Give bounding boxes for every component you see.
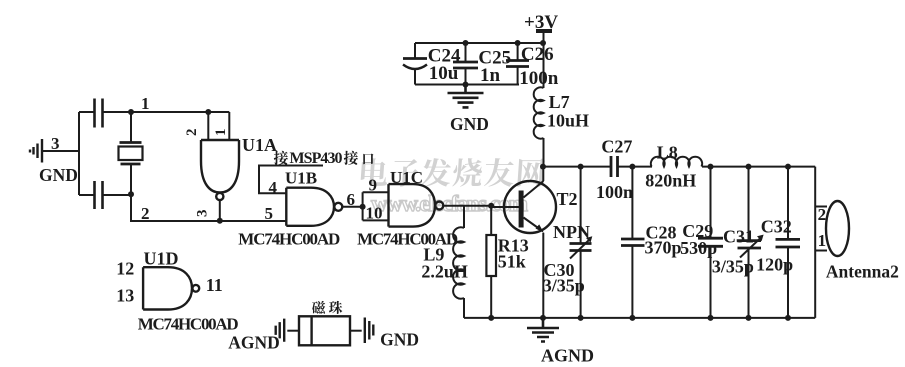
bottom ground rail [464,317,815,319]
wire bead to GND [350,330,362,332]
top rail right of L8 [702,166,815,168]
wire base node to T2 [491,206,519,208]
wire vertical left bus [78,112,80,195]
svg-text:2: 2 [184,129,200,137]
svg-text:11: 11 [206,275,223,295]
resistor R13 [486,206,496,318]
svg-text:51k: 51k [498,252,526,272]
svg-text:3: 3 [51,134,60,153]
svg-text:10uH: 10uH [547,111,589,131]
label 接MSP430接口 [274,150,374,167]
wire AGND to bead [287,330,299,332]
nand gate U1B [286,188,342,226]
nand gate U1A (vertical) [201,140,239,200]
svg-text:MC74HC00AD: MC74HC00AD [238,230,340,249]
ferrite bead body [299,316,350,345]
svg-text:100n: 100n [596,182,633,202]
wire node1 to U1A inputs [131,111,229,113]
svg-text:C32: C32 [761,217,792,237]
junction dot at U1A input [205,109,211,115]
svg-text:U1B: U1B [285,169,317,188]
ground symbol GND (left, pin 3) [30,139,42,163]
svg-text:820nH: 820nH [645,171,696,191]
nand gate U1C [389,184,444,227]
svg-text:2.2uH: 2.2uH [421,262,468,282]
svg-text:NPN: NPN [553,222,590,242]
node 1 (crystal top junction) [128,109,134,115]
svg-text:1: 1 [141,94,150,113]
ground symbol AGND (bead left) [276,319,285,342]
junction dot collector/L7 [540,164,546,170]
variable capacitor C31 [738,167,764,318]
crystal Y1 [119,112,143,194]
top rail C27 to L8 [618,166,653,168]
nand gate U1D [143,267,199,309]
svg-text:C27: C27 [601,137,632,157]
antenna feed line [814,167,816,318]
svg-text:100n: 100n [519,68,559,89]
U1A output wire pin 3 [219,200,221,221]
svg-text:1: 1 [213,129,229,137]
svg-text:3/35p: 3/35p [712,257,754,277]
U1A input pin wires (pins 2,1) [208,112,229,140]
junction dot base node [488,203,494,209]
junction dots on rails [463,40,469,46]
svg-text:5: 5 [265,204,274,223]
U1B output wire pin 6 [342,206,363,208]
capacitor C28 [621,167,645,318]
+3V supply symbol [536,31,552,88]
svg-text:C31: C31 [723,227,754,247]
svg-text:GND: GND [39,165,78,185]
svg-text:AGND: AGND [228,333,280,353]
svg-text:AGND: AGND [541,346,594,366]
svg-text:U1D: U1D [144,249,179,269]
capacitor C24 (electrolytic) [403,43,427,85]
MSP430 interface callout bracket [259,166,323,194]
inductor L7 [534,87,544,166]
transistor T2 [504,181,556,233]
svg-text:3: 3 [195,210,211,218]
capacitor C29 [698,167,723,318]
capacitor (bottom, crystal load) [79,181,131,209]
svg-text:MC74HC00AD: MC74HC00AD [138,315,239,334]
svg-text:10: 10 [366,204,383,223]
capacitor (top, crystal load) [79,99,131,128]
ground symbol GND (decoupling bank) [448,85,484,108]
svg-text:3/35p: 3/35p [543,276,585,296]
inductor L9 [453,206,464,318]
svg-text:Antenna2: Antenna2 [826,262,899,282]
svg-text:370p: 370p [645,238,682,258]
junction dot U1A out on wire 2 [217,218,223,224]
antenna Antenna2 [815,201,849,256]
svg-text:4: 4 [269,178,278,197]
label 磁珠 (ferrite bead) [312,301,342,314]
svg-text:1n: 1n [480,65,501,86]
ground symbol GND (bead right) [365,318,374,344]
junction dots on top rail [578,164,584,170]
variable capacitor C30 [570,167,593,318]
svg-text:2: 2 [818,205,827,224]
svg-text:10u: 10u [429,63,459,84]
decoupling bank top rail [415,42,543,44]
svg-text:6: 6 [347,190,356,209]
capacitor C32 [776,167,801,318]
watermark 电子发烧友网 [360,158,545,187]
T2 collector wire [542,167,544,181]
svg-text:T2: T2 [557,189,578,209]
junction dot pin6 node [360,204,366,210]
svg-text:MSP430: MSP430 [290,150,343,167]
ground symbol AGND (main) [527,318,559,342]
svg-text:1: 1 [818,231,827,250]
decoupling bank bottom rail [415,84,519,86]
inductor L8 [651,157,702,167]
svg-text:12: 12 [116,259,134,279]
wire ground to crystal network [42,150,79,152]
top rail left of C27 [543,166,611,168]
junction dots on bottom rail [488,315,494,321]
capacitor C25 [453,43,478,85]
capacitor C26 [506,43,529,85]
U1C output wire pin 8 [443,205,492,207]
svg-text:C26: C26 [521,44,554,65]
wire node2 down and right to U1B pin5 [131,194,286,221]
svg-text:+3V: +3V [524,12,558,33]
node 2 (crystal bottom junction) [128,191,134,197]
svg-text:120p: 120p [756,255,793,275]
svg-text:9: 9 [369,176,378,195]
svg-text:530p: 530p [680,238,717,258]
U1C input tie box (pins 9,10) [363,192,389,220]
capacitor C27 (series) [611,156,618,177]
svg-text:GND: GND [380,330,419,350]
svg-text:GND: GND [450,114,489,134]
svg-text:L8: L8 [657,143,678,163]
svg-text:13: 13 [116,286,134,306]
T2 emitter wire [542,233,544,318]
svg-text:L7: L7 [549,92,570,112]
svg-text:U1A: U1A [242,135,277,155]
